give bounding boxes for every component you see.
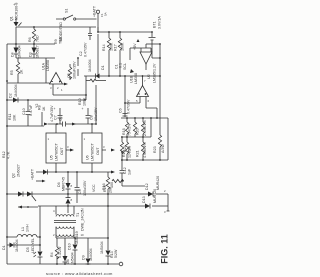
svg-text:4.99K/1%: 4.99K/1% [143,142,147,158]
svg-text:R5: R5 [10,70,14,75]
svg-text:1N4004: 1N4004 [14,84,18,97]
svg-text:2K: 2K [20,69,24,74]
svg-text:VCC: VCC [92,184,96,192]
svg-text:1N5817: 1N5817 [36,45,40,58]
svg-text:D5: D5 [26,247,30,252]
svg-text:MUR420: MUR420 [153,189,157,203]
svg-text:10: 10 [81,233,85,237]
svg-text:LM358: LM358 [134,73,138,84]
svg-text:MODE/TBD: MODE/TBD [59,22,63,41]
svg-text:R14: R14 [102,44,106,51]
svg-text:C9: C9 [78,189,82,194]
svg-text:C10: C10 [22,108,26,115]
svg-text:D9: D9 [82,255,86,260]
svg-text:U2: U2 [147,74,151,79]
svg-text:100uF/35V: 100uF/35V [73,61,77,79]
svg-text:L1: L1 [21,227,25,231]
svg-text:U1A: U1A [42,62,46,70]
svg-text:3.6V/1A: 3.6V/1A [158,16,162,29]
svg-text:10u/35V: 10u/35V [94,107,98,121]
svg-text:1K: 1K [42,106,46,111]
svg-text:D6: D6 [57,182,61,187]
svg-text:4.7K: 4.7K [7,151,11,159]
svg-text:LM7805CT: LM7805CT [91,142,95,161]
svg-text:3: 3 [50,86,52,90]
svg-text:C3: C3 [59,116,63,121]
svg-text:R17: R17 [114,44,118,51]
svg-text:7: 7 [144,79,146,83]
svg-text:T1: T1 [76,213,80,217]
svg-text:100u/35V: 100u/35V [83,180,87,196]
svg-text:2.49K/1%: 2.49K/1% [143,120,147,136]
svg-text:0.47uF: 0.47uF [29,104,33,116]
svg-text:2: 2 [164,189,166,193]
svg-text:D1: D1 [101,65,105,70]
svg-text:C2: C2 [79,51,83,56]
svg-text:3: 3 [164,210,166,214]
svg-text:+BATT: +BATT [31,168,35,180]
svg-text:5/2W: 5/2W [114,249,118,258]
svg-text:100K: 100K [83,97,87,106]
svg-text:R11: R11 [8,114,12,120]
svg-text:C7: C7 [54,115,58,120]
svg-text:R18: R18 [122,128,126,135]
svg-text:MCR106-8: MCR106-8 [15,3,19,20]
svg-text:4.7uF/35V: 4.7uF/35V [50,105,54,122]
svg-text:Q1: Q1 [10,16,14,21]
svg-text:C8: C8 [90,115,94,120]
svg-text:1: 1 [48,137,50,141]
svg-text:source : www.alldatasheet.com: source : www.alldatasheet.com [46,271,113,276]
svg-text:8: 8 [71,184,73,188]
svg-text:C12: C12 [123,167,127,174]
svg-text:R23: R23 [153,146,157,153]
svg-text:R6: R6 [28,37,32,42]
svg-text:D8: D8 [66,259,70,264]
svg-text:6: 6 [148,99,150,103]
svg-text:0.1: 0.1 [119,63,123,68]
svg-text:1N4004: 1N4004 [18,45,22,58]
svg-text:1N4004: 1N4004 [89,248,93,261]
svg-text:A/3W: A/3W [161,144,165,153]
svg-text:1N4004: 1N4004 [88,59,92,72]
svg-text:R10: R10 [78,98,82,105]
svg-text:U5: U5 [50,155,54,160]
svg-text:0.47/35V: 0.47/35V [127,99,131,114]
svg-text:LM358: LM358 [46,60,50,71]
svg-text:0.47/35V: 0.47/35V [84,42,88,57]
svg-text:1: 1 [61,88,63,92]
svg-text:OUT: OUT [60,147,64,155]
svg-text:R8: R8 [38,105,42,110]
svg-text:D13: D13 [142,196,146,203]
svg-text:S1: S1 [65,9,69,13]
svg-text:LM7805CT: LM7805CT [55,142,59,161]
svg-text:FIG. 11: FIG. 11 [160,234,170,264]
svg-text:R21: R21 [136,150,140,157]
svg-text:3: 3 [67,145,69,149]
svg-text:D3: D3 [29,52,33,57]
svg-text:100: 100 [110,182,114,188]
svg-text:5A: 5A [104,12,108,16]
svg-text:+: + [82,107,84,111]
svg-text:R20: R20 [136,128,140,135]
svg-text:2: 2 [57,86,59,90]
svg-text:5: 5 [136,99,138,103]
svg-text:3: 3 [103,145,105,149]
svg-text:+BATT: +BATT [93,5,97,17]
svg-text:LED-YEL: LED-YEL [31,238,35,253]
svg-text:754: 754 [128,147,132,153]
svg-text:2N6027: 2N6027 [17,164,21,177]
svg-text:754/1%: 754/1% [128,123,132,136]
svg-text:1N5404: 1N5404 [71,252,75,265]
svg-text:5.1/2W: 5.1/2W [58,246,62,258]
svg-text:1uF: 1uF [128,168,132,175]
svg-text:1N5819: 1N5819 [75,231,79,244]
svg-text:1N4004: 1N4004 [15,239,19,252]
svg-text:R12: R12 [2,151,6,158]
svg-text:R24: R24 [123,145,127,152]
svg-text:C5: C5 [67,73,71,78]
svg-text:78D: 78D [36,35,40,42]
svg-text:10K: 10K [13,114,17,121]
svg-text:8: 8 [71,198,73,202]
svg-text:U1B: U1B [130,75,134,83]
svg-text:1N5404: 1N5404 [100,241,104,254]
svg-text:+5V: +5V [133,43,137,50]
svg-text:MUR420: MUR420 [156,176,160,190]
svg-text:R16: R16 [102,183,106,190]
svg-text:R9: R9 [54,39,58,44]
svg-text:D4: D4 [11,52,15,57]
svg-text:OUT: OUT [96,147,100,155]
svg-text:R4: R4 [50,252,54,257]
svg-text:SCL: SCL [123,63,127,70]
svg-text:1: 1 [84,137,86,141]
svg-text:C6: C6 [119,108,123,113]
svg-text:4: 4 [53,209,55,213]
svg-text:LM385/1.2V: LM385/1.2V [153,63,157,83]
svg-text:Q2: Q2 [12,173,16,178]
svg-text:1mH: 1mH [26,224,30,232]
svg-text:2: 2 [53,233,55,237]
svg-text:D12: D12 [145,183,149,190]
svg-text:U6: U6 [86,155,90,160]
svg-text:D1: D1 [2,245,6,250]
svg-text:MBR745: MBR745 [62,177,66,191]
svg-text:D2: D2 [9,93,13,98]
svg-text:D10: D10 [68,243,72,250]
svg-text:100K: 100K [121,42,125,51]
svg-text:BT1: BT1 [153,21,157,28]
